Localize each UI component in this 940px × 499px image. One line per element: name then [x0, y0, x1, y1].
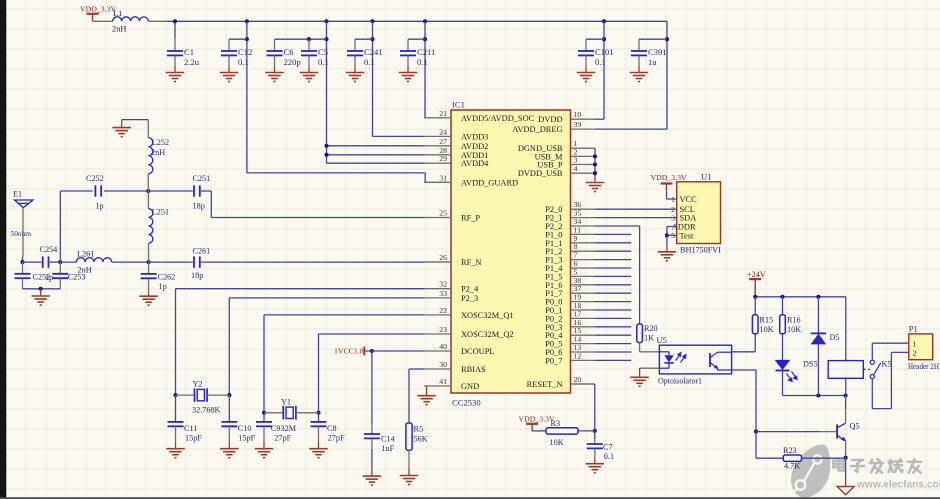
svg-text:12: 12: [574, 351, 582, 360]
resistor R16: [780, 315, 786, 334]
svg-text:40: 40: [439, 342, 447, 351]
U5 internal LED: [659, 351, 669, 353]
svg-text:AVDD4: AVDD4: [461, 159, 489, 168]
wire: [59, 191, 61, 262]
wire stub: [595, 267, 631, 269]
resistor R23: [783, 455, 801, 461]
Q5 base bar: [836, 424, 838, 438]
ground C241: [346, 73, 365, 82]
svg-text:33: 33: [439, 289, 447, 298]
wire bottom bus: [783, 395, 846, 397]
pin 20 RESET_N: [571, 383, 596, 385]
pin 20 RESET_N: [571, 383, 595, 385]
svg-text:P2_4: P2_4: [461, 285, 479, 294]
pin 30 RBIAS: [424, 368, 451, 370]
wire: [175, 395, 177, 422]
ground C391: [630, 73, 649, 82]
svg-text:R5: R5: [414, 425, 424, 434]
pin Q5 collector: [845, 409, 847, 423]
pin 41 GND: [424, 385, 451, 387]
svg-text:USB_P: USB_P: [537, 161, 562, 170]
svg-text:15pF: 15pF: [185, 433, 202, 442]
pin 39 AVDD_DREG: [571, 128, 596, 130]
pin 6 P1_4: [571, 267, 596, 269]
wire +24V bus: [755, 296, 846, 298]
wire U5 cathode: [640, 367, 660, 369]
node L251/C262: [147, 260, 151, 264]
wire AVDD1: [327, 154, 425, 156]
pin 38 P1_6: [571, 284, 596, 286]
svg-text:0.1: 0.1: [595, 57, 606, 67]
wire: [754, 297, 756, 315]
pin 37 P1_7: [571, 292, 596, 294]
pin 29 AVDD4: [424, 162, 451, 164]
pin 36 P2_0: [571, 208, 596, 210]
svg-text:2nH: 2nH: [151, 148, 165, 157]
wire ADDR: [667, 226, 677, 228]
op-amp U1 : main IC1 CC2530 box: [451, 110, 571, 393]
svg-text:U1: U1: [701, 172, 712, 182]
capacitor C10: [221, 422, 237, 426]
relay link dashed: [863, 368, 870, 370]
antenna E1: [15, 200, 33, 208]
svg-text:18p: 18p: [191, 271, 203, 280]
wire: [318, 413, 320, 422]
svg-text:D5: D5: [830, 333, 840, 342]
wire: [845, 396, 847, 410]
svg-text:AVDD3: AVDD3: [461, 132, 488, 141]
pin 1 DGND_USB: [571, 147, 596, 149]
node C253: [58, 260, 62, 264]
svg-text:32M: 32M: [281, 424, 297, 433]
power ground GND arrow: [837, 487, 854, 495]
wire: [732, 351, 756, 353]
svg-text:2nH: 2nH: [112, 25, 126, 34]
inductor L252: [148, 138, 153, 174]
svg-text:10K: 10K: [760, 325, 774, 334]
svg-text:30: 30: [439, 360, 447, 369]
wire RBIAS: [409, 368, 424, 370]
wire: [872, 408, 891, 410]
node gnd: [39, 287, 43, 291]
capacitor C211: [400, 51, 416, 55]
svg-text:C14: C14: [381, 434, 395, 443]
wire to AVDD pins: [326, 21, 328, 163]
svg-text:C241: C241: [364, 47, 383, 57]
pin: [207, 394, 229, 396]
svg-text:3: 3: [574, 156, 578, 165]
svg-text:1p: 1p: [159, 282, 167, 291]
capacitor C262: [141, 274, 157, 278]
svg-text:www.elecfans.com: www.elecfans.com: [856, 480, 940, 491]
pin 27 AVDD2: [424, 145, 451, 147]
svg-text:25: 25: [439, 209, 447, 218]
svg-text:18p: 18p: [193, 202, 205, 211]
pin 15 P0_4: [571, 334, 596, 336]
svg-text:27: 27: [439, 137, 447, 146]
svg-text:0.1: 0.1: [364, 57, 375, 67]
wire stub: [595, 317, 631, 319]
wire stub: [595, 359, 631, 361]
sheet edge bottom: [0, 497, 940, 499]
wire P2_2: [595, 225, 640, 227]
svg-text:DVDD_USB: DVDD_USB: [518, 169, 563, 178]
wire: [532, 430, 546, 432]
svg-text:DS5: DS5: [803, 360, 818, 369]
svg-text:C12: C12: [238, 47, 252, 57]
wire to AVDD_GUARD: [246, 21, 248, 173]
svg-text:AVDD2: AVDD2: [461, 142, 488, 151]
svg-text:GND: GND: [461, 382, 479, 391]
wire: [782, 371, 784, 396]
svg-text:CC2530: CC2530: [452, 398, 481, 408]
capacitor C101: [578, 51, 594, 55]
wire: [228, 298, 230, 395]
capacitor C14: [364, 434, 380, 438]
node L252: [146, 189, 150, 193]
ground L252: [112, 128, 131, 137]
ground C11: [166, 449, 185, 458]
svg-text:P2_3: P2_3: [461, 294, 478, 303]
ground U1: [658, 252, 677, 261]
pin antenna feed: [22, 208, 24, 257]
ground USB: [586, 183, 605, 192]
wire: [229, 38, 247, 40]
wire stub: [595, 343, 631, 345]
wire: [355, 38, 373, 40]
svg-text:R15: R15: [760, 316, 774, 325]
wire: [639, 343, 641, 352]
pin 2 USB_M: [571, 155, 596, 157]
svg-text:4.7K: 4.7K: [784, 462, 800, 471]
pin 31 AVDD_GUARD: [424, 181, 451, 183]
wire: [756, 457, 783, 459]
wire: [845, 458, 847, 479]
pin 3 USB_P: [571, 164, 596, 166]
wire AVDD_DREG: [595, 128, 667, 130]
wire stub: [595, 259, 631, 261]
wire stub: [595, 292, 631, 294]
wire: [408, 38, 425, 40]
capacitor C12: [221, 51, 237, 55]
pin 24 AVDD3: [424, 135, 451, 137]
wire to AVDD5: [424, 21, 426, 118]
LED DS5: [775, 360, 791, 370]
wire stub: [595, 301, 631, 303]
svg-text:22: 22: [439, 306, 447, 315]
svg-text:32.768K: 32.768K: [192, 405, 221, 414]
svg-text:P1: P1: [909, 325, 918, 334]
wire: [594, 431, 596, 440]
resistor R20: [637, 324, 643, 343]
wire R15 to U5 collector: [754, 334, 756, 352]
wire: [424, 173, 426, 182]
wire U5 emitter down: [755, 370, 757, 432]
ground C262: [139, 296, 158, 305]
pin: [174, 38, 176, 51]
wire U5 emitter out: [732, 369, 756, 371]
node Q5 collector: [844, 393, 848, 397]
capacitor C254: [43, 256, 49, 267]
node VDD/C101: [602, 19, 606, 23]
capacitor C6: [267, 51, 283, 55]
pin: [147, 174, 149, 191]
node Test: [665, 233, 669, 237]
capacitor C7: [587, 444, 603, 448]
svg-text:P0_7: P0_7: [545, 356, 562, 365]
svg-text:IC1: IC1: [452, 100, 465, 110]
pin: [59, 262, 61, 274]
node R15: [753, 295, 757, 299]
ground C1: [166, 73, 185, 82]
svg-text:C11: C11: [184, 424, 197, 433]
pin Q5 base: [819, 431, 837, 433]
node emitter/R23: [844, 456, 848, 460]
svg-text:220p: 220p: [284, 57, 301, 67]
resistor R3: [546, 428, 578, 434]
pin 33 P2_3: [424, 297, 451, 299]
svg-text:R20: R20: [644, 324, 658, 333]
ground C10: [220, 449, 239, 458]
svg-text:4: 4: [574, 164, 578, 173]
svg-text:XOSC32M_Q1: XOSC32M_Q1: [461, 311, 514, 320]
svg-text:10K: 10K: [787, 325, 801, 334]
wire: [174, 21, 176, 38]
pin: [147, 120, 149, 138]
svg-text:1uF: 1uF: [381, 444, 394, 453]
wire stub: [595, 250, 631, 252]
pin 28 AVDD1: [424, 154, 451, 156]
wire: [782, 297, 784, 315]
capacitor C11: [168, 422, 184, 426]
capacitor C1: [167, 51, 183, 55]
wire: [23, 261, 42, 263]
crystal Y1: [283, 406, 296, 420]
svg-text:24: 24: [439, 127, 447, 136]
node Q5 base: [754, 430, 758, 434]
wire: [817, 297, 819, 334]
svg-text:1: 1: [913, 339, 917, 348]
wire stub: [595, 326, 631, 328]
wire GND pin: [426, 386, 428, 396]
svg-text:39: 39: [574, 120, 582, 129]
pin 32 P2_4: [424, 288, 451, 290]
pin 26 RF_N: [424, 261, 451, 263]
svg-text:1u: 1u: [648, 57, 657, 67]
svg-text:15pF: 15pF: [238, 433, 255, 442]
node Y1 right: [316, 411, 320, 415]
svg-text:31: 31: [439, 173, 447, 182]
pin 19 P0_0: [571, 301, 596, 303]
node Y1 left: [262, 411, 266, 415]
ground C7: [586, 464, 605, 473]
wire RESET_N: [594, 384, 596, 431]
pin: [147, 191, 149, 209]
wire: [60, 190, 92, 192]
pin: [638, 39, 640, 51]
svg-text:RBIAS: RBIAS: [461, 365, 486, 374]
svg-text:VCC: VCC: [680, 195, 698, 204]
pin 40 DCOUPL: [424, 350, 451, 352]
wire: [318, 334, 320, 413]
capacitor C5: [301, 51, 317, 55]
wire: [263, 413, 265, 422]
wire DCOUPL: [372, 350, 424, 352]
svg-text:C8: C8: [327, 424, 337, 433]
node D5: [816, 295, 820, 299]
wire Test: [667, 234, 677, 236]
node RESET: [593, 429, 597, 433]
pin 12 P0_7: [571, 359, 596, 361]
svg-text:1p: 1p: [95, 202, 103, 211]
svg-text:RESET_N: RESET_N: [527, 380, 563, 389]
wire stub: [595, 242, 631, 244]
wire RF_N: [201, 261, 424, 263]
svg-text:BH1750FVI: BH1750FVI: [680, 246, 721, 255]
ground C101: [577, 73, 596, 82]
svg-text:L251: L251: [152, 208, 169, 217]
contact lever: [874, 363, 881, 375]
wire to R20: [639, 226, 641, 324]
svg-text:0.1: 0.1: [318, 57, 329, 67]
wire R23 to emitter: [802, 457, 846, 459]
svg-text:1p: 1p: [45, 273, 53, 282]
svg-text:23: 23: [439, 325, 447, 334]
wire R16 to DS5: [782, 334, 784, 360]
pin: [264, 412, 283, 414]
svg-text:VDD_3.3V: VDD_3.3V: [651, 173, 688, 182]
svg-text:C10: C10: [238, 424, 252, 433]
wire: [104, 190, 148, 192]
DS5 emission arrows: [787, 372, 798, 382]
wire: [756, 431, 819, 433]
svg-text:0.1: 0.1: [238, 57, 249, 67]
svg-text:AVDD_GUARD: AVDD_GUARD: [461, 178, 518, 187]
pin: [176, 394, 195, 396]
wire P2_4: [176, 288, 425, 290]
wire to AVDD_DREG: [666, 21, 668, 129]
ground C9: [255, 449, 274, 458]
wire RF_P: [211, 217, 424, 219]
ground pin41: [417, 396, 436, 405]
wire stub: [595, 275, 631, 277]
pin 23 XOSC32M_Q2: [424, 333, 451, 335]
node VDD/C211: [423, 19, 427, 23]
wire to AVDD3: [372, 21, 374, 136]
svg-text:C391: C391: [648, 47, 667, 57]
ground C6: [265, 73, 284, 82]
node AVDD2: [324, 144, 328, 148]
wire: [122, 119, 149, 121]
svg-text:C7: C7: [603, 443, 613, 452]
wire AVDD2: [327, 145, 425, 147]
pin 34 P2_2: [571, 225, 596, 227]
wire to R23: [755, 432, 757, 459]
wire: [228, 395, 230, 422]
pin 18 P0_1: [571, 309, 596, 311]
wire to U5 anode: [640, 351, 660, 353]
sensor U1 BH1750FVI box: [677, 182, 721, 244]
svg-text:C101: C101: [595, 47, 614, 57]
wire to DVDD: [603, 21, 605, 119]
wire stub: [595, 233, 631, 235]
ground U5: [630, 377, 649, 386]
connector P1 Header 2H: [909, 334, 933, 360]
pin 22 XOSC32M_Q1: [424, 314, 451, 316]
ground C12: [220, 73, 239, 82]
node VDD/AVDD: [324, 19, 328, 23]
node C5: [307, 37, 311, 41]
node VDD/C241: [370, 19, 374, 23]
svg-text:C251: C251: [193, 174, 211, 183]
svg-text:C254: C254: [40, 245, 58, 254]
pin 35 P2_1: [571, 217, 596, 219]
wire: [666, 190, 668, 199]
inductor L1: [113, 17, 149, 21]
wire to VCC: [667, 198, 677, 200]
pin: [585, 39, 587, 51]
wire AVDD4: [327, 162, 425, 164]
svg-text:20: 20: [574, 375, 582, 384]
wire: [371, 449, 373, 469]
optocoupler U5 box: [659, 345, 731, 374]
pin 9 P1_1: [571, 242, 596, 244]
wire: [149, 261, 193, 263]
wire: [586, 38, 604, 40]
node Y2 right: [227, 393, 231, 397]
wire: [364, 350, 372, 352]
svg-text:10K: 10K: [550, 438, 564, 447]
capacitor C391: [631, 51, 647, 55]
pin 11 P1_0: [571, 233, 596, 235]
wire: [201, 190, 211, 192]
wire: [275, 38, 327, 40]
wire: [148, 190, 192, 192]
node AVDD1: [324, 153, 328, 157]
svg-text:R16: R16: [787, 316, 801, 325]
svg-text:Y1: Y1: [281, 398, 291, 407]
wire stub: [595, 351, 631, 353]
wire P2_0 to SCL: [595, 208, 677, 210]
svg-text:29: 29: [439, 154, 447, 163]
wire AVDD3: [373, 135, 425, 137]
svg-text:C261: C261: [193, 246, 211, 255]
U5 phototransistor: [709, 353, 711, 367]
svg-text:41: 41: [439, 377, 447, 386]
resistor R5: [406, 423, 412, 450]
pin: [228, 39, 230, 51]
inductor L261: [76, 258, 111, 262]
svg-text:56K: 56K: [414, 435, 428, 444]
pin 16 P0_3: [571, 326, 596, 328]
wire antenna feed: [22, 257, 24, 262]
wire VDD bus: [167, 20, 667, 22]
ground C14: [363, 476, 382, 485]
wire: [23, 288, 61, 290]
svg-text:27pF: 27pF: [274, 433, 291, 442]
capacitor C252: [95, 185, 101, 196]
svg-text:K5: K5: [882, 360, 892, 369]
wire: [408, 369, 410, 423]
svg-text:U5: U5: [657, 336, 667, 345]
svg-text:L1: L1: [113, 9, 122, 18]
pin: [407, 39, 409, 51]
wire: [93, 20, 113, 22]
pin: [274, 39, 276, 51]
svg-text:50ohm: 50ohm: [11, 229, 32, 238]
wire DVDD: [595, 118, 604, 120]
ground C211: [399, 73, 418, 82]
